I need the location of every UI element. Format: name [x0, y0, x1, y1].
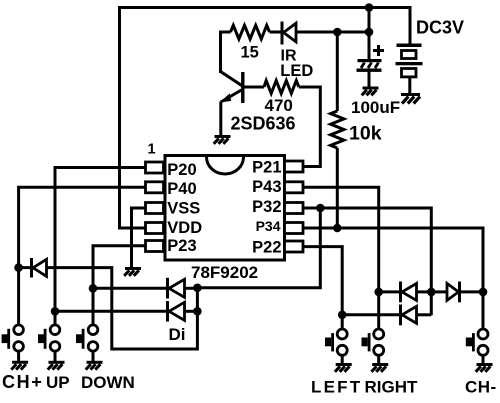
- node CH+ / D2: [14, 263, 23, 272]
- battery BT1 cell 1: [402, 51, 417, 59]
- diode Di2 triangle: [169, 302, 185, 320]
- diode D5 triangle: [402, 306, 417, 323]
- wire VDD pin to top power rail: [120, 8, 147, 229]
- node UP / Di2: [51, 307, 60, 316]
- wire D5 cathode lead from LEFT column: [342, 313, 399, 316]
- diode Di2 cathode bar: [166, 301, 169, 322]
- wire R1 to LED D1: [270, 31, 282, 34]
- wire Di1 node to P32 riser: [197, 208, 320, 288]
- transistor Q1 base bar: [241, 72, 244, 103]
- svg-text:10k: 10k: [349, 123, 382, 145]
- IC pin box P40: [146, 182, 164, 193]
- IC pin box VSS: [146, 203, 164, 214]
- wire D2 anode L-path to Di anodes: [47, 268, 198, 349]
- node P32 / D3 D4: [427, 288, 436, 297]
- wire Di2 anode to node: [185, 310, 198, 313]
- node rail / C1 junction: [365, 3, 374, 12]
- node D1 / C1: [365, 28, 374, 37]
- IC pin box P23: [146, 241, 164, 252]
- node R3 / P34: [333, 224, 342, 233]
- svg-text:15: 15: [241, 44, 259, 62]
- transistor Q1 collector diagonal: [221, 72, 243, 87]
- resistor R3 10k upper lead: [336, 32, 339, 111]
- node CH- / D4: [479, 288, 488, 297]
- wire D3 anode to node: [417, 290, 432, 293]
- svg-text:P32: P32: [252, 198, 281, 216]
- ground LEFT: [335, 365, 352, 372]
- wire R2 to P21: [299, 87, 321, 167]
- diode D4 cathode bar: [458, 282, 461, 303]
- node Di1 anode: [193, 284, 202, 293]
- svg-text:DC3V: DC3V: [416, 18, 464, 38]
- wire P22 to LEFT column: [303, 247, 342, 315]
- capacitor C1 100uF bottom plate: [357, 69, 382, 72]
- wire CH+ button lead: [17, 268, 20, 326]
- node LEFT / D5: [338, 311, 347, 320]
- svg-text:P20: P20: [167, 161, 196, 179]
- pushbutton LEFT: [325, 329, 347, 365]
- IC pin box P32: [285, 203, 304, 214]
- ground VSS: [124, 269, 141, 276]
- svg-text:RIGHT: RIGHT: [365, 378, 419, 397]
- wire DOWN button lead: [92, 288, 95, 325]
- ground C1: [362, 88, 379, 95]
- diode Di1 cathode bar: [166, 278, 169, 299]
- wire Q1 emitter to ground: [219, 102, 222, 138]
- svg-text:1: 1: [148, 142, 156, 158]
- svg-text:UP: UP: [46, 373, 70, 392]
- resistor R2 470: [264, 81, 299, 94]
- ground Q1 emitter: [214, 137, 231, 144]
- wire RIGHT button lead: [377, 292, 380, 330]
- pushbutton UP: [38, 325, 60, 362]
- wire D3 cathode lead: [379, 290, 399, 293]
- pushbutton RIGHT: [362, 329, 384, 365]
- svg-text:2SD636: 2SD636: [231, 114, 296, 134]
- wire Di1 cathode lead from DOWN column: [93, 287, 167, 290]
- transistor Q1 emitter diagonal: [221, 90, 243, 103]
- ground CH-: [476, 365, 493, 372]
- svg-text:P40: P40: [167, 180, 196, 198]
- wire Di2 cathode lead from UP column: [55, 310, 167, 313]
- ground RIGHT: [371, 365, 388, 372]
- wire D4 anode lead: [431, 290, 447, 293]
- transistor Q1 base lead: [244, 86, 264, 89]
- wire C1 to ground: [368, 72, 371, 89]
- wire VSS to ground: [132, 208, 147, 269]
- wire LEFT button lead: [341, 315, 344, 330]
- wire D5 anode to P32 riser: [417, 313, 432, 316]
- wire top power rail: [118, 6, 410, 9]
- wire P20 to UP column: [55, 168, 146, 312]
- wire C1 branch from rail: [368, 8, 371, 61]
- svg-text:P22: P22: [252, 238, 281, 256]
- wire P34 to CH- column: [303, 228, 483, 292]
- LED D1 triangle: [284, 23, 297, 42]
- wire battery to ground: [408, 77, 411, 96]
- node D1 / R3: [333, 28, 342, 37]
- diode D3 cathode bar: [399, 282, 402, 303]
- capacitor C1 100uF plus sign: [373, 45, 384, 56]
- svg-text:78F9202: 78F9202: [191, 263, 258, 282]
- svg-text:CH-: CH-: [465, 378, 497, 397]
- node P32: [316, 204, 325, 213]
- svg-text:P43: P43: [252, 178, 281, 196]
- svg-text:DOWN: DOWN: [81, 373, 135, 392]
- transistor Q1 emitter arrowhead: [220, 93, 232, 102]
- wire UP button lead: [54, 311, 57, 325]
- IC pin box VDD: [146, 223, 164, 234]
- wire R3 lower lead to P34 row: [336, 148, 339, 228]
- battery BT1 cell 2: [402, 69, 417, 77]
- pushbutton CH+: [2, 325, 24, 362]
- diode D5 cathode bar: [399, 305, 402, 326]
- svg-text:VSS: VSS: [167, 200, 200, 218]
- capacitor C1 100uF hatch: [361, 63, 379, 69]
- node RIGHT / D3: [374, 288, 383, 297]
- ground CH+: [11, 362, 28, 369]
- pushbutton DOWN: [76, 325, 98, 362]
- wire CH- button lead: [482, 292, 485, 330]
- node DOWN / Di1: [89, 284, 98, 293]
- svg-text:LEFT: LEFT: [311, 378, 362, 397]
- IC pin box P34: [285, 223, 304, 234]
- diode D2 triangle: [33, 259, 47, 276]
- IC pin box P20: [146, 162, 164, 173]
- wire P40 to CH+ column: [19, 187, 146, 267]
- IC pin box P21: [285, 161, 304, 172]
- svg-text:CH+: CH+: [2, 372, 43, 392]
- svg-text:VDD: VDD: [167, 219, 202, 237]
- wire battery drop from rail: [409, 6, 412, 45]
- svg-text:P23: P23: [167, 237, 196, 255]
- svg-text:LED: LED: [280, 62, 313, 80]
- svg-text:100uF: 100uF: [351, 98, 400, 117]
- battery BT1 mid plate: [396, 62, 423, 65]
- battery BT1 top plate: [397, 44, 422, 48]
- svg-text:Di: Di: [169, 325, 186, 344]
- wire P23 to DOWN column: [93, 246, 146, 288]
- capacitor C1 100uF top plate: [358, 59, 382, 62]
- wire Di1 anode to node: [185, 287, 198, 290]
- resistor R3 10k: [331, 111, 344, 148]
- resistor R1 15: [231, 25, 270, 39]
- LED D1 cathode bar: [281, 22, 284, 45]
- wire D1 to junctions: [296, 31, 369, 34]
- svg-text:P21: P21: [252, 158, 281, 176]
- pushbutton CH-: [466, 329, 488, 365]
- diode D4 triangle: [447, 283, 459, 300]
- diode Di1 triangle: [169, 279, 185, 297]
- IC U1 78F9202 body: [165, 156, 285, 261]
- IC pin box P22: [285, 241, 304, 252]
- wire D4 cathode to node: [460, 290, 484, 293]
- svg-text:470: 470: [265, 96, 293, 115]
- diode D2 cathode bar: [30, 258, 33, 278]
- svg-text:P34: P34: [256, 218, 281, 234]
- ground battery: [401, 95, 420, 104]
- node Di2 anode: [193, 307, 202, 316]
- ground UP: [48, 362, 65, 369]
- IC pin box P43: [285, 182, 304, 193]
- wire P32 row and riser to row2: [303, 208, 431, 315]
- wire D2 cathode lead: [19, 266, 30, 269]
- ground DOWN: [86, 362, 103, 369]
- diode D3 triangle: [402, 283, 417, 300]
- wire P43 to RIGHT column: [303, 187, 379, 292]
- wire R1 left lead and drop to Q1 collector: [221, 32, 231, 73]
- IC U1 notch: [207, 157, 244, 174]
